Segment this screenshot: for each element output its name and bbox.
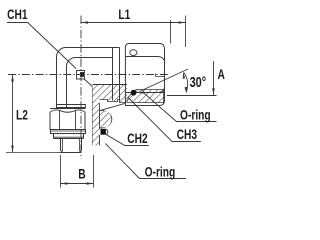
stud transition groove [57,105,86,109]
dimension L1 line [81,22,186,24]
dimension B extension left [60,155,62,188]
A arrowhead [212,88,215,95]
svg-text:L1: L1 [118,7,130,23]
B arrow right [87,182,94,185]
centerline vertical axis [80,16,82,160]
leader line horizontal to o-ring dot [139,92,164,94]
stud o-ring bulge [106,129,108,135]
30 degree reference baseline [167,95,217,97]
CH1 label leader [7,23,76,69]
hex CH2 outline [50,109,85,130]
body corner step chamfer [84,79,92,87]
stud section bulge cylinder [100,110,112,128]
body witness inner contour [67,58,113,109]
L1 arrow right [179,21,186,24]
nut chamfer line bottom [125,88,164,93]
threaded stud [61,139,82,153]
nut section hatch lower half [127,90,164,103]
30 degree arc [184,73,188,92]
svg-text:L2: L2 [16,107,28,123]
svg-text:30°: 30° [190,73,207,90]
stud bulge hatch [100,111,111,128]
washer [51,130,86,134]
clip black mark [81,73,85,76]
svg-text:CH1: CH1 [7,6,28,22]
stud bottom edge [61,152,82,154]
svg-text:CH2: CH2 [127,130,148,146]
thread inner lines [62,139,79,152]
B arrow left [61,182,68,185]
nut chamfer line top [125,57,164,62]
hex chamfer arcs [50,110,85,112]
CH3 label leader [128,97,201,142]
o-ring dot face seal [131,90,137,96]
dimension A line [213,61,215,95]
washer second ring [54,134,84,139]
stud right profile line [100,103,125,110]
centerline horizontal axis [8,74,169,76]
body bore line [93,84,128,86]
svg-text:CH3: CH3 [177,127,198,143]
strip right boundary [99,103,101,145]
O-ring bottom label leader [105,143,186,178]
washer inner line [51,130,86,132]
cone tip mark inside nut [156,74,165,77]
arc arrowhead top [183,72,186,79]
arc arrowhead bottom [185,87,188,94]
L1 arrow left [81,21,88,24]
L2 arrow top [11,75,14,82]
body lower-right edge vertical [92,87,94,146]
dimension L2 line [12,75,14,153]
L2 bottom extension line [6,152,61,154]
L2 arrow bottom [11,146,14,153]
body outline elbow outer contour [57,47,113,108]
nut outline [125,44,164,106]
O-ring right label leader [144,93,217,122]
dimension B extension right [93,155,95,188]
stud o-ring black section [101,129,106,135]
svg-text:O-ring: O-ring [145,164,176,180]
vertical arm section hatch strip [93,88,100,146]
L1 right extension line [185,16,187,48]
hex facet lines [60,110,76,129]
body section lower boundary [93,100,126,103]
svg-text:A: A [218,66,226,82]
svg-text:B: B [78,166,86,182]
CH2 label leader [106,135,148,146]
30 degree cone diagonal [140,69,189,92]
dimension B line [61,183,94,185]
washer second inner line [54,136,84,138]
nut slot ellipse [130,50,137,56]
svg-text:O-ring: O-ring [180,107,211,123]
body section hatch horizontal arm [93,85,128,103]
collar ring [113,48,120,101]
auxiliary extension line at nut [170,20,172,44]
corner clip feature CH1 target [77,71,85,80]
arrowhead at o-ring dot [137,91,144,93]
